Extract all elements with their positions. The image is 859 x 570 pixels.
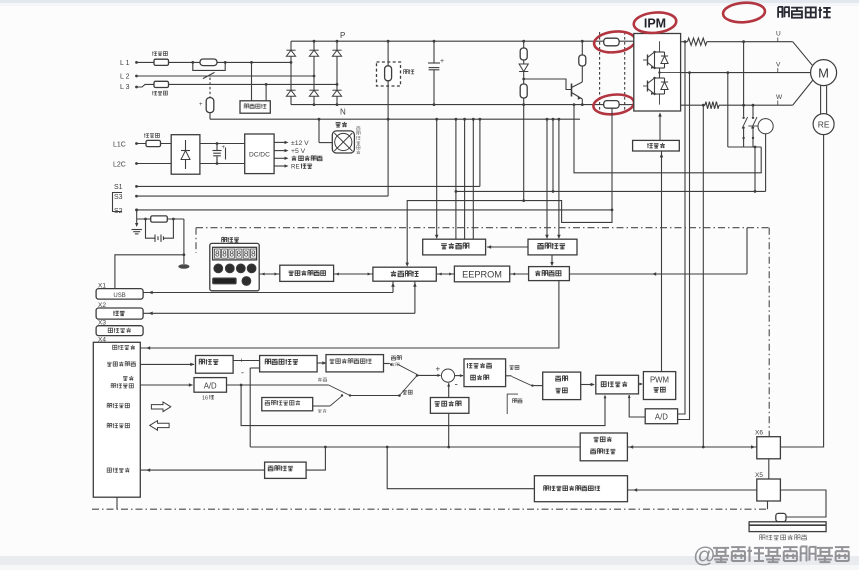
wire gate-drive to IPM — [659, 114, 661, 140]
wire speed detection to summing — [448, 383, 450, 397]
internal speed command box — [262, 398, 313, 411]
label pulse command — [107, 362, 136, 367]
svg-text:L 1: L 1 — [120, 60, 130, 67]
label position — [391, 356, 401, 360]
amplifier boundary dash-dot top — [196, 227, 769, 229]
svg-text:N: N — [340, 108, 346, 117]
amplifier boundary dash-dot left stub — [195, 228, 197, 253]
node P rail — [291, 40, 604, 42]
wire sense staircase to parameter control — [407, 109, 612, 266]
divider processing box — [265, 462, 307, 478]
svg-text:PWM: PWM — [650, 376, 669, 385]
svg-text:A/D: A/D — [655, 413, 668, 422]
summing junction — [441, 369, 454, 382]
wire AD to speed selector — [227, 384, 329, 386]
IPM inner IGBT cell top — [647, 55, 649, 66]
label brake resistor — [404, 69, 415, 74]
wire contacts to coil line — [754, 146, 757, 149]
wire encoder to X6 — [780, 135, 823, 447]
wire L1C — [137, 143, 171, 145]
wire current sense V — [688, 71, 691, 74]
external brake resistor dashed box — [377, 62, 401, 86]
dynamic brake relay coil — [758, 119, 773, 134]
watermark — [693, 543, 849, 568]
DCDC converter — [245, 134, 274, 174]
svg-text:W: W — [776, 94, 783, 101]
wire dc-minus bus — [210, 118, 580, 120]
wire scale proc input — [387, 447, 534, 489]
svg-text:8: 8 — [215, 250, 220, 259]
panel set button — [242, 277, 251, 286]
node N rail — [291, 104, 604, 106]
AD converter 2 box — [645, 409, 677, 424]
label fuse F2 — [152, 91, 167, 95]
fuse F1 — [154, 59, 169, 65]
wire divider processing to X4 — [140, 469, 264, 471]
panel buttons — [214, 264, 223, 273]
wire feedback to counter minus — [250, 367, 259, 369]
svg-text:A/D: A/D — [204, 381, 217, 390]
wire monitor to protection — [551, 255, 553, 265]
amplifier boundary dash-dot right — [768, 228, 770, 437]
EEPROM box — [454, 266, 509, 282]
position mode contact — [398, 364, 418, 374]
wire current control to PWM — [639, 383, 643, 385]
wire panel to display-control — [259, 273, 280, 275]
bracket S3-S2 — [113, 193, 123, 212]
protection circuit box — [529, 267, 570, 281]
external scale processing box — [534, 476, 627, 502]
svg-text:V: V — [776, 62, 781, 69]
red ellipse highlight RS1 — [593, 30, 636, 55]
wire rectifier to dcdc — [200, 143, 245, 145]
wire X2 to parameter control — [143, 312, 415, 314]
dynamic brake relay contacts — [742, 40, 745, 43]
shunt resistor RS1 — [604, 38, 619, 46]
scale read head — [776, 513, 786, 521]
wire L1 — [137, 61, 291, 63]
red ellipse highlight RS2 — [592, 93, 635, 117]
svg-text:@: @ — [693, 543, 716, 568]
wire scale proc to X5 — [627, 489, 756, 491]
panel mode key — [213, 278, 236, 284]
label speed out — [510, 365, 519, 369]
wire torque limit to current control — [581, 384, 594, 386]
svg-text:X5: X5 — [755, 472, 763, 479]
svg-text:+: + — [222, 145, 226, 151]
wire divider processing input — [306, 447, 325, 470]
wire phase V — [681, 72, 811, 74]
wire selector to summing — [417, 374, 440, 376]
wire analog command to AD — [140, 384, 192, 386]
fuse F2 — [154, 81, 169, 87]
voltage detection box — [240, 101, 270, 113]
brake sense string R-D-R — [522, 40, 525, 43]
label external scale unit — [760, 535, 807, 541]
wire L2 — [137, 75, 314, 77]
svg-text:+: + — [240, 358, 244, 365]
wire W branch to X6 line — [702, 104, 705, 107]
control rectifier — [171, 135, 200, 175]
speed error amplifier box — [464, 359, 506, 387]
wire timing inputs — [435, 118, 438, 121]
control output hollow arrow — [150, 421, 169, 431]
torque limit box — [543, 372, 581, 400]
label control input — [107, 403, 129, 408]
svg-text:EEPROM: EEPROM — [462, 270, 502, 280]
display operation control box — [280, 265, 334, 281]
wire alarm to X4 — [140, 281, 559, 348]
svg-text:DC/DC: DC/DC — [249, 152, 270, 159]
deviation counter box — [260, 356, 318, 372]
svg-text:L 3: L 3 — [120, 84, 130, 91]
svg-text:U: U — [776, 31, 781, 38]
label pulse output — [107, 468, 129, 473]
wire encoder proc to X6 — [627, 446, 756, 448]
wire X5 to boundary — [767, 501, 769, 509]
wire divider to counter plus — [233, 360, 260, 362]
wire S3 — [137, 195, 388, 197]
wire ground branch to X1 — [115, 255, 184, 289]
svg-text:IPM: IPM — [644, 17, 666, 31]
red ellipse highlight detection position — [722, 1, 765, 23]
brake resistor R-ext — [385, 66, 392, 81]
svg-text:L2C: L2C — [113, 161, 126, 168]
wire speed amp out — [506, 375, 512, 377]
parameter control box — [373, 267, 436, 281]
wire AD2 to current control — [629, 395, 645, 417]
wire PWM to gate-drive — [661, 151, 663, 372]
label speed mode — [403, 390, 412, 394]
wire X4 bottom to boundary — [116, 497, 118, 509]
svg-text:X6: X6 — [755, 430, 763, 437]
wire amp to switch — [384, 363, 390, 365]
motor M — [811, 60, 837, 86]
wire monitor to timing — [487, 246, 528, 248]
IPM module U1 — [634, 34, 681, 112]
wire counter to position amp — [317, 362, 326, 364]
label fuse F1 — [152, 51, 167, 55]
frequency divider box — [196, 356, 234, 374]
amplifier boundary dash-dot bottom — [92, 508, 768, 510]
wire X6 to X5 — [768, 459, 770, 479]
label fuse F3 — [144, 133, 159, 137]
label alarm signal — [113, 345, 135, 350]
wire brake emitter to relay — [574, 105, 761, 173]
photo edge shading bottom — [0, 556, 859, 565]
anomaly monitor box — [528, 239, 577, 255]
wire L3 — [137, 84, 337, 87]
wire coil to sequencer — [765, 134, 767, 192]
motor shaft — [820, 86, 822, 114]
timing control box — [423, 239, 486, 255]
wire internal speed to selector — [313, 405, 330, 407]
label detection position — [778, 7, 831, 18]
svg-text:RE: RE — [818, 120, 830, 130]
wire switch to torque limit — [532, 385, 542, 387]
wire protection right — [569, 273, 747, 275]
label torque — [513, 399, 523, 403]
svg-text:8: 8 — [229, 250, 234, 259]
photo edge shading top — [0, 0, 859, 3]
label front panel — [222, 237, 239, 242]
wire parameter to EEPROM — [436, 273, 454, 275]
wire AD branch to current loop — [240, 384, 243, 387]
wire X1 to parameter control — [143, 292, 393, 294]
shunt resistor RS2 — [604, 101, 619, 109]
IPM inner link — [659, 68, 661, 78]
svg-text:+: + — [440, 58, 444, 65]
surge absorber Z1 — [209, 78, 211, 98]
dc-bus electrolytic capacitor C1 — [433, 40, 436, 43]
label fan note — [356, 127, 360, 154]
ground under S2 — [136, 219, 138, 226]
rectifier bridge D1-D6 — [290, 41, 292, 104]
speed selector dip — [329, 385, 350, 396]
svg-text:8: 8 — [222, 250, 227, 259]
encoder RE — [813, 114, 834, 135]
wire monitor inputs — [546, 118, 549, 121]
svg-text:P: P — [340, 31, 345, 40]
wire encoder feedback bus — [250, 446, 580, 448]
wire X5 to read head — [780, 490, 826, 517]
chassis ground — [178, 264, 189, 269]
AD converter box — [194, 378, 227, 393]
encoder signal processing box — [580, 433, 627, 461]
wire battery to ground — [183, 219, 185, 264]
gate drive box — [633, 140, 680, 151]
wire protection to EEPROM — [510, 273, 529, 275]
svg-text:8: 8 — [237, 250, 242, 259]
wire voltage-sense from L1 — [250, 61, 253, 64]
svg-text:-: - — [455, 380, 458, 391]
svg-text:S1: S1 — [114, 184, 123, 191]
battery fuse — [137, 218, 184, 220]
svg-text:S3: S3 — [114, 194, 123, 201]
wire phase W with resistor — [681, 104, 705, 106]
wire summing to speed amp — [455, 375, 463, 377]
fuse F3 — [146, 140, 161, 146]
inrush resistor R-inrush — [200, 59, 217, 66]
svg-text:M: M — [818, 66, 829, 81]
linear scale bar — [749, 522, 826, 532]
power outputs — [274, 141, 286, 143]
battery loop — [146, 219, 156, 238]
wire speed detection feedback — [448, 413, 450, 447]
PWM circuit box — [643, 372, 675, 400]
wire current sense U — [684, 40, 687, 43]
svg-text:+5 V: +5 V — [291, 148, 306, 155]
wire S2 — [137, 209, 612, 211]
wire string sense down — [523, 105, 525, 201]
brake transistor Q1 — [571, 84, 573, 97]
label control output — [107, 423, 129, 428]
wire S2 tap — [135, 209, 138, 212]
wire S1 — [137, 185, 480, 187]
wire phase U with resistor — [681, 41, 688, 43]
fan — [336, 122, 347, 127]
svg-text:8: 8 — [251, 250, 256, 259]
speed detection box — [430, 398, 469, 414]
current control box — [596, 375, 639, 394]
svg-text:±12 V: ±12 V — [291, 140, 309, 147]
filter capacitors C2 — [216, 144, 218, 151]
front panel box — [210, 243, 259, 290]
svg-text:16: 16 — [202, 396, 208, 402]
svg-text:+: + — [199, 102, 203, 108]
wire display-control to parameter — [334, 273, 373, 275]
svg-text:L1C: L1C — [113, 141, 126, 148]
svg-text:USB: USB — [113, 293, 125, 299]
svg-text:-: - — [241, 368, 244, 378]
brake collector resistor R2 — [581, 40, 584, 43]
svg-text:L 2: L 2 — [120, 74, 130, 81]
wire aux monitor drop — [552, 118, 555, 121]
panel display — [213, 247, 257, 260]
control input hollow arrow — [151, 402, 170, 412]
current sensor dashed box — [599, 32, 601, 113]
wire fan — [319, 142, 332, 144]
relay bypass loop — [193, 62, 225, 70]
red ellipse highlight IPM label — [633, 11, 677, 35]
label analog tap — [318, 377, 327, 381]
svg-text:RE: RE — [291, 164, 300, 171]
torque mode switch — [512, 376, 532, 385]
wire L2C — [137, 163, 171, 165]
svg-text:+: + — [436, 365, 441, 374]
wire voltage-sense from L3 — [265, 83, 268, 86]
wire brake gate — [522, 78, 525, 81]
svg-text:8: 8 — [244, 250, 249, 259]
relay contact on L2 — [203, 72, 215, 78]
label analog speed command — [123, 376, 133, 381]
wire pulse command to divider — [140, 363, 194, 365]
position error amplifier box — [326, 355, 384, 372]
